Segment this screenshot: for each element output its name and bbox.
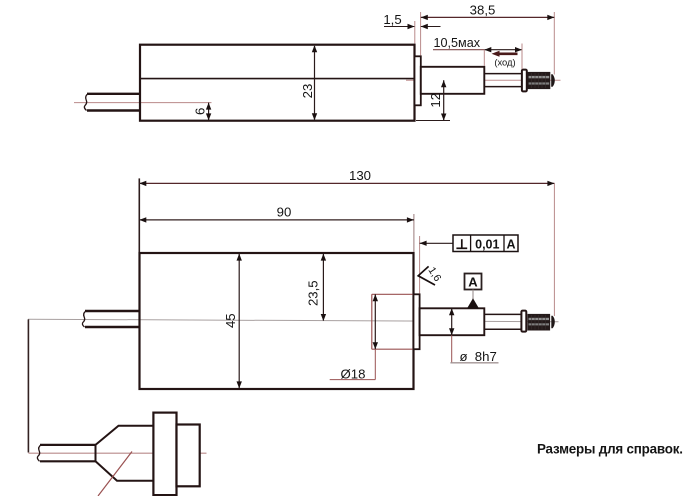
dimension 1,5 (top view) xyxy=(383,12,440,29)
svg-text:Ø18: Ø18 xyxy=(341,366,366,381)
cable break symbol (top view) xyxy=(84,94,88,111)
red diagonal leader xyxy=(98,452,132,496)
shaft axis centerline (top view) xyxy=(406,79,561,81)
stroke arrow (ход) (top view) xyxy=(492,51,518,68)
perpendicularity frame leader (lower view) xyxy=(420,236,453,294)
dimension 38,5 (top view) xyxy=(421,3,555,21)
dimension 23,5 (lower view) xyxy=(306,254,327,321)
perpendicularity feature control frame xyxy=(453,235,518,252)
svg-text:ø: ø xyxy=(460,349,468,364)
svg-text:12: 12 xyxy=(428,93,443,108)
svg-text:A: A xyxy=(468,275,478,290)
body outline (top view) xyxy=(140,45,415,121)
dimension 45 (lower view) xyxy=(223,254,242,389)
flange / boss visible (lower view) xyxy=(414,294,420,349)
connector coupling ring xyxy=(153,413,176,496)
collar (top view) xyxy=(522,70,527,92)
dimension 90 (lower view) xyxy=(139,205,414,252)
connector rear body xyxy=(177,425,200,487)
svg-text:23: 23 xyxy=(300,84,315,99)
svg-text:45: 45 xyxy=(223,313,238,328)
svg-text:Размеры для справок.: Размеры для справок. xyxy=(537,441,683,456)
knurled tip (top view) xyxy=(528,72,555,88)
svg-text:38,5: 38,5 xyxy=(470,3,496,18)
dimension 8h7 (lower view) xyxy=(449,308,499,364)
rod (lower view) xyxy=(484,314,521,329)
extension line knurl tip (top view, for 38.5) xyxy=(553,12,555,75)
cable (lower view) xyxy=(85,311,140,327)
cable break symbol (lower view) xyxy=(82,311,86,327)
connector axis centerline xyxy=(29,452,207,454)
svg-text:A: A xyxy=(506,237,515,251)
roughness symbol 1,6 xyxy=(418,265,443,285)
body outline (lower view) xyxy=(140,253,414,389)
wire: link line to connector view xyxy=(27,319,29,452)
cable (top view) xyxy=(87,94,140,111)
svg-text:1,5: 1,5 xyxy=(383,12,401,27)
flange (top view) xyxy=(415,56,421,105)
svg-text:(ход): (ход) xyxy=(494,57,515,68)
datum A symbol xyxy=(465,274,482,309)
connector cable break xyxy=(37,445,41,461)
dimension 18 (lower view) xyxy=(330,294,378,381)
hidden boss lines (lower view, red) xyxy=(372,294,414,349)
svg-text:6: 6 xyxy=(193,108,208,115)
dimension 12 (top view) xyxy=(416,80,450,120)
dimension 6 (top view) xyxy=(193,103,212,121)
bushing 8h7 (top view) xyxy=(421,67,485,94)
extension line body face (top view, for 1.5 / 38.5) xyxy=(414,21,416,44)
wire: cable axis centerline (top view) xyxy=(74,102,212,104)
svg-text:23,5: 23,5 xyxy=(306,280,321,306)
rod (top view) xyxy=(484,74,521,87)
svg-text:8h7: 8h7 xyxy=(475,349,497,364)
knurled tip (lower view) xyxy=(528,314,555,330)
dimension 130 (lower view) xyxy=(139,168,554,316)
extension line flange face (top view) xyxy=(420,12,422,56)
svg-text:130: 130 xyxy=(349,168,371,183)
dimension 10,5max (top view) xyxy=(433,36,522,69)
svg-text:0,01: 0,01 xyxy=(475,237,499,251)
svg-text:10,5мах: 10,5мах xyxy=(434,36,481,50)
dimension 23 (top view) xyxy=(300,45,317,120)
body split line (top view) xyxy=(140,78,415,80)
main axis centerline (lower view) xyxy=(28,319,559,322)
collar (lower view) xyxy=(521,311,526,332)
connector boot xyxy=(96,426,154,481)
connector cable xyxy=(40,445,96,461)
svg-text:90: 90 xyxy=(277,205,292,220)
shaft 8h7 (lower view) xyxy=(420,308,485,335)
